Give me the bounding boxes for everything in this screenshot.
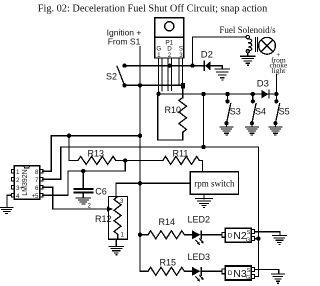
svg-text:rpm switch: rpm switch [194,178,235,188]
pin 3 pad [181,83,185,89]
wire R15 to LED3 [184,270,192,272]
wire IC pin 4 to ground [7,195,11,207]
switch S3 [227,94,229,101]
svg-text:2: 2 [16,177,20,184]
ground S5 [269,127,282,135]
junction drain pin 2 [168,64,172,68]
lamp choke light [259,37,276,54]
ground D2 [215,69,230,80]
wire R13 to junction [116,159,125,161]
junction R13/R11 divider [123,158,127,162]
label D3 [257,79,269,90]
label R11 [173,149,189,159]
node S2 bottom contact [122,83,126,87]
svg-text:6: 6 [35,185,39,192]
solenoid coil [248,39,252,51]
label wiper pin 2 [88,204,92,210]
label R15 [160,258,177,268]
solenoid core bars [254,38,256,52]
junction ignition rail / R12 wire [138,181,142,185]
label LED2 [188,215,211,225]
label LM392N [22,169,29,195]
ground N2 [272,235,286,244]
svg-text:S4: S4 [255,107,266,117]
wire D2 to ground [211,66,223,69]
svg-text:1: 1 [157,52,161,59]
labels N3 package [228,268,251,281]
pin 2 D leads [168,58,172,91]
svg-text:4: 4 [16,193,20,200]
ground C6 [76,198,90,204]
wire divider node elbow [83,161,125,171]
svg-text:3+: 3+ [16,185,23,192]
svg-text:From S1: From S1 [108,37,141,47]
label R10 [165,105,182,115]
resistor R15 [148,267,184,275]
wire N2 source to ground [255,232,281,236]
wire solenoid to ground [247,53,249,56]
svg-text:1: 1 [16,169,20,176]
wire drain riser to fuel solenoid [193,37,246,66]
svg-text:R10: R10 [165,105,182,115]
svg-text:S3: S3 [230,107,241,117]
wire gate node horizontal [159,93,277,95]
label Fuel Solenoid/s [219,25,276,35]
resistor R10 bottom loop wire [158,95,183,140]
wire IC pin 6 to R12 wiper [43,187,108,209]
junction S4 [251,92,255,96]
svg-text:LED3: LED3 [188,252,211,262]
svg-text:N3: N3 [233,268,247,280]
wire IC pin 7 to output rail [43,147,61,179]
LED2 arrows [196,239,203,244]
capacitor C6 [74,188,92,190]
pin labels G D S 1 2 3 [156,46,183,59]
wire choke light down to D3 node [275,75,277,94]
svg-text:S: S [247,268,251,274]
wire R14 lead [140,234,148,236]
LED3 [192,267,200,276]
label LED3 [188,252,211,262]
wire drain node horizontal [125,65,204,67]
resistor R11 [163,156,199,164]
diode D2 cathode bar [204,61,205,71]
wire ignition vertical rail [139,47,141,272]
node S2 top contact [122,64,126,68]
resistor R13 [78,156,116,164]
svg-text:LED2: LED2 [188,215,211,225]
R12 wiper arrow [107,206,113,212]
ground R12 [109,246,123,254]
label rpm switch [194,178,235,188]
svg-text:R12: R12 [95,214,112,224]
rpm switch box [190,172,238,195]
label Ignition + From S1 [107,28,142,47]
ground solenoid [241,56,255,65]
junction gate pin 1 [156,92,160,96]
wire R13 riser from V+ [69,136,78,161]
svg-text:G: G [246,237,250,243]
label R13 [88,149,105,159]
svg-text:S5: S5 [279,107,290,117]
junction ignition/source wire [138,83,142,87]
ground rpm switch [195,199,212,208]
transistor N2 package [225,228,251,242]
wire R11 lead left [125,159,163,161]
wire LED3 to N3 [202,270,222,272]
label C6 [95,187,107,197]
pin 3 S leads [179,58,183,84]
IC pin numbers [16,169,39,200]
svg-text:R14: R14 [159,217,176,227]
pin 1 G leads [159,58,163,91]
transistor N3 package [225,266,251,280]
label R12 [95,214,112,224]
transistor P1 package body [155,18,184,58]
junction drain riser to solenoid [190,64,194,68]
svg-text:Fuel Solenoid/s: Fuel Solenoid/s [219,25,276,35]
junction gate rail riser [201,92,205,96]
switch S5 [275,94,277,101]
diode D3 [262,90,269,98]
wire IC pin 5 to divider node [43,171,84,195]
svg-text:+5: +5 [31,193,39,200]
label R12 pin 1 [121,233,125,239]
svg-text:R13: R13 [88,149,105,159]
ground N3 [272,274,285,283]
LED2 [192,230,200,239]
svg-text:8: 8 [35,169,39,176]
label D2 [201,50,213,61]
svg-text:D: D [228,270,233,277]
ground S4 [245,127,258,135]
solenoid coil terminals [246,35,249,38]
resistor R10 top lead [182,89,184,98]
wire R12 to ground [115,239,117,246]
junction V+ wire / R13 riser [67,134,71,138]
wire LED2 to N2 [202,234,222,236]
diode D2 [205,61,211,70]
potentiometer R12 element [114,197,121,240]
label S2 [106,72,117,82]
switch S4 [252,94,254,101]
wire gate riser down to output rail [203,94,205,147]
svg-text:7: 7 [35,177,39,184]
svg-text:R15: R15 [160,258,177,268]
junction output rail / gate riser [201,145,205,149]
title [38,3,267,14]
wire N3 gate to rail [255,275,259,277]
op-amp U1 LM392N body [14,166,40,200]
junction C6 node [81,169,85,173]
label R14 [159,217,176,227]
svg-text:Fig. 02: Deceleration Fuel Shu: Fig. 02: Deceleration Fuel Shut Off Circ… [38,3,267,14]
switch S2 blade [117,66,124,84]
wire N3 source to ground [255,270,279,274]
svg-text:S: S [247,230,251,236]
junction S3 [225,92,229,96]
resistor R10 [179,98,187,133]
junction S5 / D3 cathode [274,92,278,96]
ground IC pin 4 [0,207,13,213]
junction V+ wire / ignition rail [138,134,142,138]
svg-text:D: D [228,232,233,239]
svg-text:R11: R11 [173,149,189,159]
svg-text:G: G [246,275,250,281]
junction N2 gate / rail [256,236,260,240]
svg-text:D2: D2 [201,50,213,61]
svg-text:C6: C6 [95,187,107,197]
potentiometer R12 box [109,197,128,240]
labels N2 package [228,230,251,243]
wire source node horizontal [125,84,184,86]
label P1 [165,40,173,47]
capacitor C6 lead [82,171,84,188]
label + from choke light [269,50,288,75]
wire R15 lead [140,270,148,272]
ground S3 [220,127,233,135]
wire IC pin 8 to V+ [43,136,140,171]
LED3 arrows [196,275,203,280]
IC pin squares right [40,170,43,197]
label R12 pin 3 [120,199,124,205]
wire N2 gate to rail [255,238,259,240]
wire output rail [61,146,259,148]
svg-text:D3: D3 [257,79,269,90]
wire rpm switch to ground [203,194,205,198]
wire output rail down to N2 N3 gates [257,147,259,276]
IC pin squares left [11,170,14,197]
svg-text:light: light [272,66,287,75]
resistor R14 [148,231,184,239]
svg-text:S2: S2 [106,72,117,82]
wire R11 to rpm switch [199,160,202,171]
wire R12 top / rpm switch left [116,183,190,196]
wire R14 to LED2 [184,234,192,236]
svg-text:N2: N2 [233,230,247,242]
junction ignition rail / R14 [138,233,142,237]
